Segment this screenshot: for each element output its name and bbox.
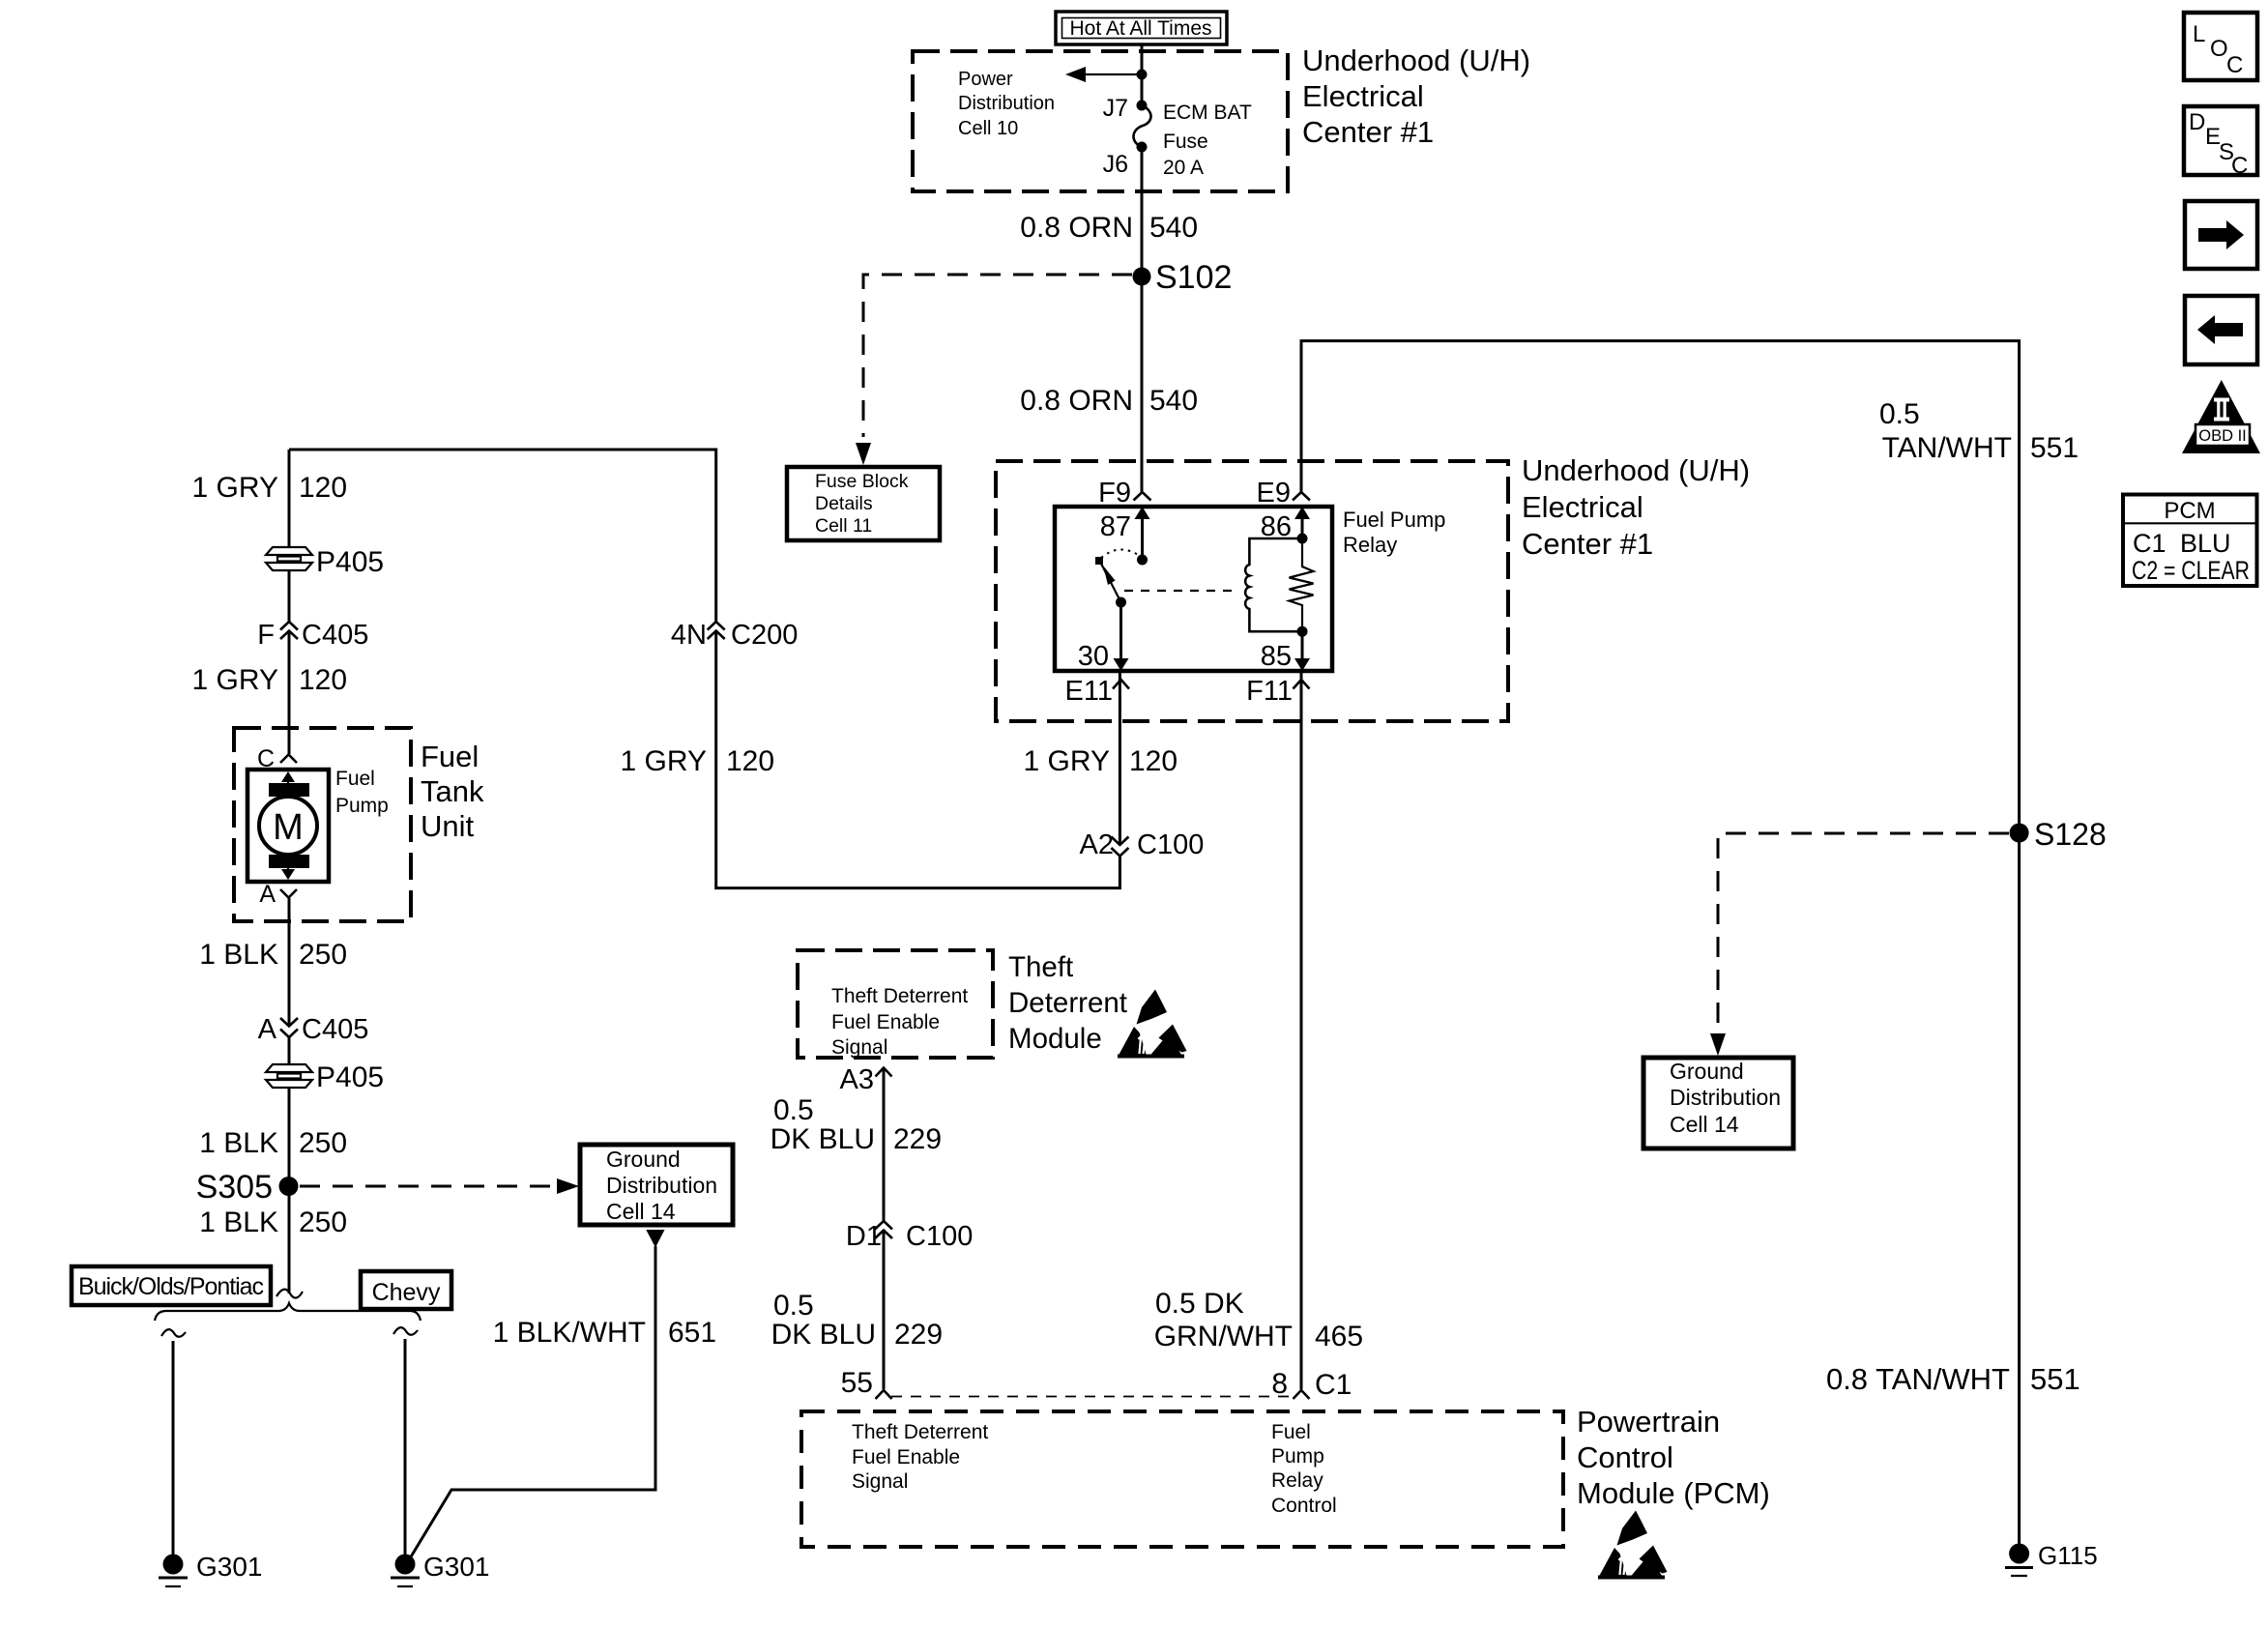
wire: ground lead to G301 (Chevy) bbox=[404, 1339, 407, 1555]
svg-text:C: C bbox=[2226, 52, 2243, 78]
svg-text:C405: C405 bbox=[302, 620, 368, 651]
icon: OBD II triangle bbox=[2182, 380, 2260, 453]
ground G301 (right) bbox=[391, 1552, 490, 1586]
svg-text:Theft: Theft bbox=[1008, 951, 1073, 983]
svg-text:Electrical: Electrical bbox=[1302, 79, 1424, 113]
dashed reference line from S128 to Ground Distribution Cell 14 bbox=[1710, 833, 2009, 1056]
label: 0.5 DK BLU 229 (upper) bbox=[771, 1094, 942, 1155]
pin E9 bbox=[1257, 478, 1310, 509]
svg-text:55: 55 bbox=[841, 1367, 873, 1399]
connector C200 pin 4N (double chevron up) bbox=[671, 620, 798, 651]
label: Fuel Pump (motor) bbox=[335, 768, 389, 817]
svg-text:1 BLK: 1 BLK bbox=[199, 1206, 278, 1238]
icon: continue-right arrow box bbox=[2185, 201, 2257, 269]
svg-text:Unit: Unit bbox=[421, 809, 475, 843]
svg-text:229: 229 bbox=[894, 1319, 943, 1351]
svg-text:ECM BAT: ECM BAT bbox=[1163, 102, 1252, 124]
wire: 1 GRY 120 (relay E11 down to C100 A2) bbox=[1119, 671, 1121, 845]
svg-text:Hot At All Times: Hot At All Times bbox=[1069, 17, 1211, 40]
svg-text:120: 120 bbox=[299, 664, 347, 696]
Chevy variant box bbox=[361, 1271, 451, 1309]
svg-text:Underhood (U/H): Underhood (U/H) bbox=[1302, 44, 1530, 77]
node: Hot At All Times power feed box bbox=[1056, 12, 1227, 44]
junction node to Power Distribution (arrow left) bbox=[1065, 67, 1148, 82]
ESD sensitivity symbol (PCM) bbox=[1598, 1511, 1668, 1580]
svg-text:8: 8 bbox=[1271, 1368, 1288, 1400]
dashed reference line from S102 to Fuse Block Details bbox=[856, 275, 1132, 465]
PCM pin 8 connector C1 bbox=[1271, 1368, 1352, 1401]
svg-text:Chevy: Chevy bbox=[372, 1279, 441, 1306]
svg-text:250: 250 bbox=[299, 1127, 347, 1159]
svg-text:Fuel: Fuel bbox=[421, 740, 479, 773]
svg-text:1 GRY: 1 GRY bbox=[1024, 745, 1111, 777]
relay pin 85 bbox=[1261, 631, 1310, 672]
pin A3 bbox=[840, 1064, 892, 1095]
icon: DESC reference box bbox=[2184, 106, 2257, 179]
wire: 0.5 DK BLU 229 (D1 to PCM pin 55) bbox=[883, 1231, 886, 1390]
svg-text:Relay: Relay bbox=[1271, 1469, 1323, 1492]
svg-text:D: D bbox=[2189, 109, 2205, 135]
svg-text:Tank: Tank bbox=[421, 774, 484, 808]
svg-text:Module: Module bbox=[1008, 1023, 1102, 1055]
svg-text:Fuel Enable: Fuel Enable bbox=[831, 1011, 940, 1033]
ground G301 (left) bbox=[159, 1552, 263, 1586]
svg-text:Theft Deterrent: Theft Deterrent bbox=[831, 985, 968, 1007]
fuel pump motor M bbox=[247, 770, 329, 882]
wire: 1 GRY 120 (C405 to fuel pump pin C) bbox=[288, 631, 291, 755]
svg-text:J6: J6 bbox=[1103, 151, 1128, 178]
svg-text:651: 651 bbox=[668, 1317, 716, 1349]
label: 1 BLK 250 (first) bbox=[199, 939, 347, 971]
label: ECM BAT Fuse 20 A bbox=[1163, 102, 1252, 179]
svg-text:0.8 ORN: 0.8 ORN bbox=[1020, 385, 1133, 417]
Fuse Block Details Cell 11 box bbox=[787, 467, 940, 540]
label: 0.5 DK BLU 229 (lower) bbox=[771, 1290, 943, 1351]
svg-text:Signal: Signal bbox=[852, 1470, 908, 1493]
Underhood (U/H) Electrical Center #1 (fuse block) dashed box bbox=[913, 51, 1288, 191]
svg-text:C405: C405 bbox=[302, 1014, 368, 1045]
connector C405 pin A (double chevron down) bbox=[258, 1014, 369, 1045]
connector C100 pin A2 (double chevron down) bbox=[1080, 829, 1205, 860]
svg-text:250: 250 bbox=[299, 1206, 347, 1238]
pin F9 bbox=[1098, 478, 1150, 509]
connector C100 pin D1 (double chevron up) bbox=[846, 1221, 973, 1252]
svg-text:Fuse Block: Fuse Block bbox=[815, 471, 909, 492]
svg-text:Cell 14: Cell 14 bbox=[606, 1199, 676, 1224]
svg-text:1 BLK: 1 BLK bbox=[199, 939, 278, 971]
connector C405 pin F (double chevron up) bbox=[257, 620, 368, 651]
svg-text:C1: C1 bbox=[1315, 1369, 1352, 1401]
svg-text:Fuse: Fuse bbox=[1163, 131, 1208, 153]
relay resistor bbox=[1290, 538, 1314, 631]
svg-text:G301: G301 bbox=[423, 1552, 490, 1582]
dashed reference line from S305 to Ground Distribution Cell 14 bbox=[300, 1178, 579, 1194]
svg-text:4N: 4N bbox=[671, 620, 707, 651]
fuel pump pin A bbox=[259, 881, 297, 908]
wire: 0.5 DK GRN/WHT 465 (relay F11 down to PCM pin 8) bbox=[1300, 671, 1303, 1389]
Theft Deterrent Module dashed box bbox=[798, 950, 993, 1058]
splice S128 bbox=[2010, 817, 2107, 852]
svg-text:M: M bbox=[273, 807, 304, 848]
svg-text:Cell 14: Cell 14 bbox=[1670, 1112, 1739, 1137]
ESD sensitivity symbol (theft deterrent module) bbox=[1118, 990, 1187, 1059]
svg-text:Electrical: Electrical bbox=[1522, 490, 1643, 524]
svg-text:C2 = CLEAR: C2 = CLEAR bbox=[2132, 556, 2250, 585]
svg-text:P405: P405 bbox=[316, 546, 384, 578]
wire: 0.8 TAN/WHT 551 (S128 to G115) bbox=[2018, 833, 2021, 1544]
svg-text:Fuel: Fuel bbox=[335, 768, 375, 790]
svg-text:Cell 10: Cell 10 bbox=[958, 118, 1018, 139]
svg-text:F11: F11 bbox=[1246, 676, 1293, 707]
svg-text:E9: E9 bbox=[1257, 478, 1291, 509]
svg-text:0.5: 0.5 bbox=[773, 1094, 814, 1126]
wire: 1 GRY 120 (C200 to corner to C100 A2) bbox=[716, 631, 1120, 888]
svg-text:Buick/Olds/Pontiac: Buick/Olds/Pontiac bbox=[78, 1273, 264, 1300]
svg-text:G115: G115 bbox=[2038, 1541, 2098, 1570]
svg-text:30: 30 bbox=[1078, 641, 1109, 672]
splice S305 bbox=[196, 1169, 299, 1206]
svg-text:85: 85 bbox=[1261, 641, 1292, 672]
svg-text:Theft Deterrent: Theft Deterrent bbox=[852, 1421, 988, 1443]
svg-text:A2: A2 bbox=[1080, 829, 1114, 860]
wire: 0.8 ORN 540 (fuse J6 to splice S102) bbox=[1141, 147, 1144, 276]
icon: continue-left arrow box bbox=[2185, 296, 2257, 364]
relay pin 30 bbox=[1078, 602, 1129, 672]
svg-text:E11: E11 bbox=[1065, 676, 1113, 707]
svg-text:1 GRY: 1 GRY bbox=[621, 745, 708, 777]
svg-text:Power: Power bbox=[958, 69, 1013, 90]
svg-text:Deterrent: Deterrent bbox=[1008, 987, 1127, 1019]
Ground Distribution Cell 14 box (right) bbox=[1643, 1058, 1793, 1148]
PCM pin 55 bbox=[841, 1367, 892, 1399]
svg-text:OBD II: OBD II bbox=[2198, 427, 2247, 445]
svg-text:C1: C1 bbox=[2133, 529, 2166, 558]
svg-text:250: 250 bbox=[299, 939, 347, 971]
svg-text:Control: Control bbox=[1271, 1495, 1337, 1517]
grommet P405 (upper) bbox=[266, 546, 384, 578]
svg-text:S128: S128 bbox=[2034, 817, 2107, 852]
wire break squiggle (left branch) bbox=[161, 1329, 186, 1337]
label: 1 BLK 250 (second) bbox=[199, 1127, 347, 1159]
svg-text:Cell 11: Cell 11 bbox=[815, 515, 872, 537]
label: 1 GRY 120 (E11 branch) bbox=[1024, 745, 1178, 777]
splice S102 bbox=[1133, 259, 1233, 296]
svg-text:Fuel: Fuel bbox=[1271, 1421, 1311, 1443]
svg-text:GRN/WHT: GRN/WHT bbox=[1154, 1321, 1293, 1352]
thin dashed module edge between pin 55 and pin 8 bbox=[891, 1396, 1294, 1398]
svg-text:Center #1: Center #1 bbox=[1522, 527, 1653, 561]
svg-text:120: 120 bbox=[726, 745, 774, 777]
svg-text:Underhood (U/H): Underhood (U/H) bbox=[1522, 453, 1750, 487]
svg-text:J7: J7 bbox=[1103, 95, 1128, 122]
label (inside): Theft Deterrent Fuel Enable Signal (PCM) bbox=[852, 1421, 988, 1493]
svg-text:1 GRY: 1 GRY bbox=[192, 472, 279, 504]
svg-text:S102: S102 bbox=[1155, 259, 1232, 296]
label: 0.5 TAN/WHT 551 bbox=[1879, 398, 2079, 464]
svg-text:Relay: Relay bbox=[1343, 533, 1397, 557]
svg-text:PCM: PCM bbox=[2164, 498, 2215, 524]
label: 1 BLK/WHT 651 bbox=[493, 1317, 716, 1349]
svg-text:L: L bbox=[2193, 21, 2205, 47]
svg-text:540: 540 bbox=[1149, 212, 1198, 244]
svg-text:Distribution: Distribution bbox=[606, 1173, 717, 1198]
label: 1 GRY 120 (top left) bbox=[192, 472, 348, 504]
wire: 1 BLK 250 (S305 down to harness split) bbox=[288, 1186, 291, 1294]
svg-text:551: 551 bbox=[2030, 432, 2079, 464]
svg-text:Pump: Pump bbox=[1271, 1445, 1324, 1468]
svg-text:C: C bbox=[2231, 153, 2248, 179]
svg-text:Module (PCM): Module (PCM) bbox=[1577, 1476, 1770, 1510]
svg-text:465: 465 bbox=[1315, 1321, 1363, 1352]
relay switch (movable contact) bbox=[1095, 549, 1140, 607]
svg-text:0.5: 0.5 bbox=[1879, 398, 1920, 430]
label: 1 BLK 250 (third) bbox=[199, 1206, 347, 1238]
fuse ECM BAT 20 A bbox=[1133, 101, 1150, 153]
svg-text:Ground: Ground bbox=[1670, 1059, 1744, 1084]
label: Powertrain Control Module (PCM) bbox=[1577, 1405, 1770, 1510]
svg-text:Signal: Signal bbox=[831, 1036, 887, 1059]
wire: 1 BLK/WHT 651 (G301 to Ground Distribution arrow) bbox=[410, 1230, 665, 1558]
svg-text:BLU: BLU bbox=[2180, 529, 2231, 558]
svg-text:Ground: Ground bbox=[606, 1147, 681, 1172]
label: 0.5 DK GRN/WHT 465 bbox=[1154, 1288, 1363, 1352]
wire: 0.5 DK BLU 229 (A3 to C100 D1) bbox=[883, 1068, 886, 1222]
wire: 0.8 ORN 540 (S102 to relay pin F9) bbox=[1141, 276, 1144, 492]
label (inside): Theft Deterrent Fuel Enable Signal bbox=[831, 985, 968, 1059]
pin F11 bbox=[1246, 676, 1309, 707]
svg-text:Details: Details bbox=[815, 493, 873, 514]
svg-text:0.5 DK: 0.5 DK bbox=[1155, 1288, 1244, 1320]
svg-text:G301: G301 bbox=[196, 1552, 263, 1582]
svg-text:Distribution: Distribution bbox=[1670, 1085, 1781, 1110]
svg-text:C100: C100 bbox=[1137, 829, 1204, 860]
wire break squiggle at harness split bbox=[276, 1290, 303, 1298]
wire: ground lead to G301 (Buick/Olds/Pontiac) bbox=[172, 1341, 175, 1555]
svg-text:1 BLK/WHT: 1 BLK/WHT bbox=[493, 1317, 646, 1349]
fuel pump relay box bbox=[1055, 507, 1332, 671]
svg-text:F: F bbox=[257, 620, 275, 651]
harness split brace bbox=[155, 1303, 421, 1321]
Fuel Tank Unit dashed box bbox=[234, 728, 411, 921]
svg-text:TAN/WHT: TAN/WHT bbox=[1882, 432, 2012, 464]
relay coil bbox=[1245, 534, 1307, 637]
svg-text:551: 551 bbox=[2030, 1362, 2080, 1396]
Powertrain Control Module dashed box bbox=[801, 1411, 1563, 1547]
svg-text:0.8 ORN: 0.8 ORN bbox=[1020, 212, 1133, 244]
svg-text:20 A: 20 A bbox=[1163, 157, 1204, 179]
svg-text:Pump: Pump bbox=[335, 795, 389, 817]
label: Underhood (U/H) Electrical Center #1 (top) bbox=[1302, 44, 1530, 149]
wire: 1 BLK 250 (C405 to P405) bbox=[288, 1037, 291, 1065]
svg-text:0.5: 0.5 bbox=[773, 1290, 814, 1322]
svg-text:C200: C200 bbox=[731, 620, 798, 651]
svg-text:Fuel Pump: Fuel Pump bbox=[1343, 508, 1445, 532]
label: Underhood (U/H) Electrical Center #1 (relay) bbox=[1522, 453, 1750, 561]
label: 1 GRY 120 (C200 branch) bbox=[621, 745, 775, 777]
label: 0.8 ORN 540 (upper) bbox=[1020, 212, 1198, 244]
wire: 0.5 TAN/WHT 551 (E9 up, across top, down to S128) bbox=[1301, 341, 2020, 824]
svg-text:Distribution: Distribution bbox=[958, 93, 1055, 114]
Buick/Olds/Pontiac variant box bbox=[72, 1266, 271, 1305]
svg-text:F9: F9 bbox=[1098, 478, 1131, 509]
svg-text:S305: S305 bbox=[196, 1169, 273, 1206]
wire: 1 GRY 120 (P405 to C405) bbox=[288, 570, 291, 623]
svg-text:Powertrain: Powertrain bbox=[1577, 1405, 1720, 1439]
label (inside): Fuel Pump Relay Control bbox=[1271, 1421, 1337, 1517]
svg-text:DK BLU: DK BLU bbox=[771, 1123, 875, 1155]
wire: 1 GRY 120 (top horizontal from left branch to C200 branch) bbox=[289, 450, 716, 623]
svg-text:O: O bbox=[2210, 36, 2228, 62]
svg-text:Control: Control bbox=[1577, 1440, 1673, 1474]
icon: LOC reference box bbox=[2184, 13, 2257, 80]
wire: 1 BLK 250 (pin A to C405) bbox=[288, 898, 291, 1026]
svg-text:1 GRY: 1 GRY bbox=[192, 664, 279, 696]
wire: 1 BLK 250 (P405 to S305) bbox=[288, 1088, 291, 1186]
Ground Distribution Cell 14 box (left) bbox=[580, 1145, 733, 1225]
svg-text:C100: C100 bbox=[906, 1221, 973, 1252]
pin E11 bbox=[1065, 676, 1129, 707]
PCM connector color legend table bbox=[2123, 495, 2257, 587]
label: 1 GRY 120 (second left) bbox=[192, 664, 348, 696]
relay internal dashed actuating link bbox=[1124, 590, 1236, 592]
svg-text:P405: P405 bbox=[316, 1061, 384, 1093]
svg-text:Center #1: Center #1 bbox=[1302, 115, 1434, 149]
label: 0.8 TAN/WHT 551 bbox=[1826, 1362, 2080, 1396]
svg-text:120: 120 bbox=[299, 472, 347, 504]
svg-text:Fuel Enable: Fuel Enable bbox=[852, 1446, 960, 1468]
svg-text:540: 540 bbox=[1149, 385, 1198, 417]
relay pin 86 bbox=[1261, 507, 1310, 542]
label: Power Distribution Cell 10 bbox=[958, 69, 1055, 139]
grommet P405 (lower) bbox=[266, 1061, 384, 1093]
svg-text:1 BLK: 1 BLK bbox=[199, 1127, 278, 1159]
relay pin 87 bbox=[1100, 507, 1150, 566]
svg-text:120: 120 bbox=[1129, 745, 1178, 777]
wire: battery feed from Hot At All Times into U/H center bbox=[1141, 44, 1144, 105]
svg-text:A: A bbox=[258, 1014, 277, 1045]
label: Theft Deterrent Module bbox=[1008, 951, 1127, 1055]
svg-text:A: A bbox=[259, 881, 276, 908]
svg-text:87: 87 bbox=[1100, 511, 1131, 542]
wire: left vertical 1 GRY 120 down to P405 bbox=[288, 450, 291, 548]
label: Fuel Pump Relay bbox=[1343, 508, 1445, 557]
svg-text:229: 229 bbox=[893, 1123, 942, 1155]
label: Fuel Tank Unit bbox=[421, 740, 484, 843]
wire break squiggle (right branch) bbox=[393, 1327, 418, 1335]
label: 0.8 ORN 540 (lower) bbox=[1020, 385, 1198, 417]
svg-text:86: 86 bbox=[1261, 511, 1292, 542]
fuel pump pin C bbox=[257, 745, 297, 772]
svg-text:0.8 TAN/WHT: 0.8 TAN/WHT bbox=[1826, 1362, 2010, 1396]
Underhood (U/H) Electrical Center #1 (relay) dashed box bbox=[996, 461, 1508, 721]
ground G115 bbox=[2005, 1541, 2098, 1576]
svg-text:A3: A3 bbox=[840, 1064, 874, 1095]
svg-text:DK BLU: DK BLU bbox=[771, 1319, 876, 1351]
